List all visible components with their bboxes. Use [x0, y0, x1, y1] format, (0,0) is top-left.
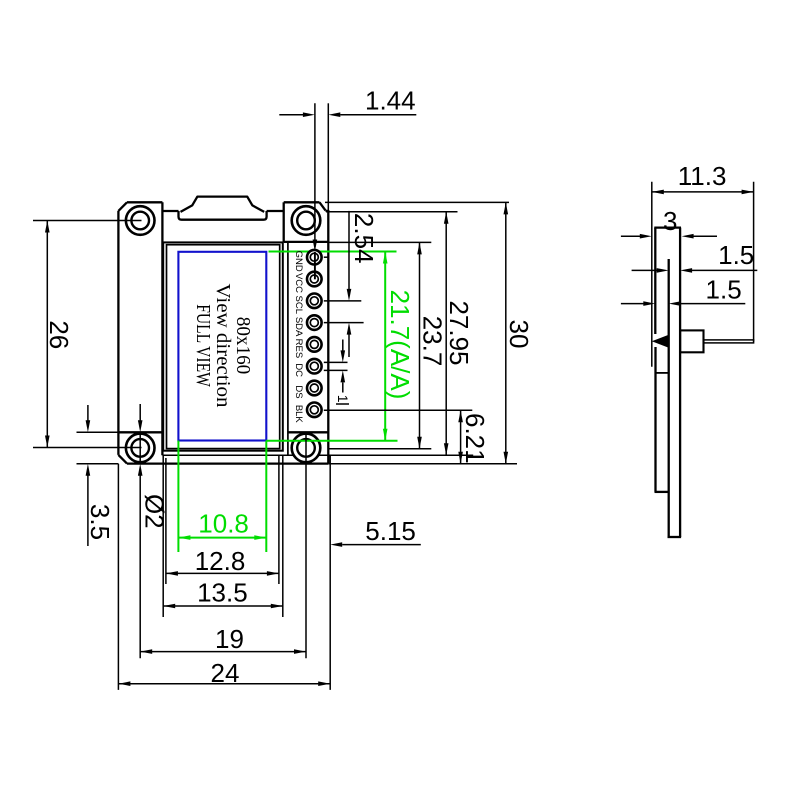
header pin BLK pad	[307, 403, 322, 418]
svg-text:10.8: 10.8	[198, 509, 249, 539]
svg-text:GND: GND	[293, 251, 304, 272]
display text 80x160 / View direction / FULL VIEW	[192, 284, 254, 408]
dim 1.44 ext line board-edge	[327, 103, 329, 210]
dim 3.5 dimension line upper	[87, 405, 89, 421]
dim 1.44 dimension line left	[279, 114, 303, 116]
PCB bottom edge	[127, 462, 328, 464]
dim 3 dimension line left	[621, 235, 640, 237]
dim 3.5 dimension line lower	[87, 476, 89, 547]
connector tab hat	[181, 197, 265, 212]
bottom-right ear top edge	[288, 431, 328, 433]
dim 13.5 dimension line	[163, 605, 283, 607]
mounting hole pad top-left	[126, 206, 155, 235]
svg-text:21.7(A/A): 21.7(A/A)	[385, 290, 415, 400]
top-left ear top edge	[127, 201, 162, 203]
dim 23.7 ext line top	[328, 241, 431, 243]
svg-text:3: 3	[663, 206, 677, 236]
svg-text:Ø2: Ø2	[139, 494, 169, 529]
dim 19 ext line right hole center	[305, 433, 307, 658]
PCB bottom-left corner chamfer	[118, 455, 127, 464]
svg-text:DC: DC	[293, 363, 304, 377]
bottom-left ear top edge	[118, 431, 162, 433]
hole center line top-left (26 ext)	[33, 220, 142, 222]
dim 2.54 dimension line upper	[348, 211, 350, 289]
side view glass front lower / FPC left edge	[654, 347, 656, 492]
dim 24 ext line right	[329, 455, 331, 690]
green ext line active-area top	[269, 251, 397, 253]
side view FPC bottom edge	[655, 491, 669, 493]
side view FPC top edge	[655, 372, 669, 374]
dim Ø2 dimension line lower (19 ext)	[139, 476, 141, 659]
side view PCB back face	[679, 228, 681, 537]
dim 3 dimension line right	[694, 235, 718, 237]
svg-text:12.8: 12.8	[195, 546, 246, 576]
PCB top edge right segment	[267, 210, 284, 212]
dim 23.7 dimension line	[419, 242, 421, 448]
svg-text:1.44: 1.44	[365, 85, 416, 115]
svg-text:23.7: 23.7	[417, 316, 447, 367]
top-right ear left edge	[283, 202, 285, 242]
dim 12.8 dimension line	[166, 572, 279, 574]
svg-text:6.21: 6.21	[460, 413, 490, 464]
svg-text:26: 26	[44, 320, 74, 349]
dim 27.95 dimension line	[445, 212, 447, 456]
svg-text:SDA: SDA	[293, 317, 304, 337]
pin column center line through GND VCC	[314, 252, 316, 279]
svg-text:FULL VIEW: FULL VIEW	[192, 304, 214, 387]
svg-text:5.15: 5.15	[365, 516, 416, 546]
PCB top edge left segment	[162, 210, 178, 212]
green ext line active-area left	[177, 441, 179, 553]
mounting hole pad top-right	[292, 206, 321, 235]
dim 23.7 ext line bottom	[328, 448, 431, 450]
dim 2.54 ext line SCL	[324, 300, 362, 302]
header pin RES pad	[307, 337, 322, 352]
dim 27.95 ext line top	[326, 211, 458, 213]
dim 11.3 ext line right	[753, 182, 755, 342]
dim 6.21 ext line BLK pin	[324, 409, 473, 411]
header pin VCC pad	[307, 272, 322, 287]
PCB top-left corner chamfer	[118, 202, 127, 211]
dim 13.5 ext line right	[282, 455, 284, 617]
display glass inner outline	[167, 245, 280, 449]
svg-text:View direction: View direction	[212, 284, 234, 408]
top-right corner segment	[326, 210, 329, 212]
side view header body	[680, 330, 703, 352]
dim 30 ext line top	[325, 201, 509, 203]
dim 24 ext line left	[117, 464, 119, 690]
dim 10.8 dimension line	[178, 537, 266, 539]
svg-text:30: 30	[504, 320, 534, 349]
display active area (blue)	[178, 252, 266, 441]
svg-text:27.95: 27.95	[444, 300, 474, 365]
dim 19 dimension line	[140, 651, 306, 653]
dim 1.5 lower dimension line right	[681, 303, 746, 305]
dim 13.5 ext line left	[162, 455, 164, 617]
dim 1.5 lower dimension line left	[621, 303, 644, 305]
svg-text:13.5: 13.5	[197, 578, 248, 608]
dim 3.5 ext line ear-top tangent	[77, 431, 138, 433]
svg-text:19: 19	[215, 624, 244, 654]
dim 26 dimension line	[46, 221, 48, 448]
header pin GND pad	[307, 250, 322, 265]
dim 1 dimension line upper	[342, 340, 344, 351]
dim 2.54 dimension line lower	[348, 335, 350, 358]
top-right ear top edge	[284, 201, 320, 203]
side view stack top cap	[654, 226, 681, 228]
hole center line bottom-left (26 ext)	[33, 447, 142, 449]
side view solder fillet	[652, 335, 669, 348]
header pin SCL pad	[307, 294, 322, 309]
green ext line active-area bottom	[266, 440, 397, 442]
dim 11.3 dimension line	[652, 191, 754, 193]
dim 1 ext line DC lower	[324, 369, 348, 371]
mounting hole pad bottom-left	[126, 434, 155, 463]
dim 1.44 pin-column arrow	[314, 240, 316, 248]
side view glass front face	[654, 228, 656, 334]
display area right boundary line	[287, 242, 289, 455]
svg-text:1.5: 1.5	[706, 275, 742, 305]
dim 12.8 ext line left	[165, 458, 167, 584]
dim 3.5 ext line board bottom left	[77, 463, 119, 465]
svg-text:VCC: VCC	[293, 273, 304, 293]
dim 1 dimension line lower	[342, 383, 344, 393]
header pin DS pad	[307, 381, 322, 396]
dim 30 ext line bottom / board bottom extension	[328, 463, 517, 465]
svg-text:11.3: 11.3	[678, 161, 727, 191]
svg-text:80x160: 80x160	[232, 317, 254, 375]
green ext line active-area right	[265, 441, 267, 553]
connector tab base	[179, 211, 267, 220]
dim 24 dimension line	[118, 683, 330, 685]
dim 30 dimension line	[505, 202, 507, 463]
GND pin stub line	[324, 256, 329, 258]
side view glass/PCB divider	[668, 259, 670, 537]
dim 1 ext line DC upper	[324, 361, 348, 363]
top-right ear chamfer	[320, 202, 326, 210]
top-right ear bottom edge	[284, 241, 329, 243]
svg-text:1.5: 1.5	[718, 240, 754, 270]
svg-text:BLK: BLK	[293, 405, 304, 424]
dim 11.3 ext line left	[651, 182, 653, 367]
dim 1.5 upper dimension line left	[632, 269, 657, 271]
lower step edge / 27.95 extension line	[162, 454, 473, 456]
dim 21.7(A/A) dimension line	[384, 252, 386, 441]
svg-text:1: 1	[335, 395, 351, 403]
side view header pin	[704, 340, 754, 343]
svg-text:SCL: SCL	[293, 296, 304, 314]
PCB board left edge	[117, 211, 119, 455]
hole center line vertical bottom-left	[139, 432, 141, 463]
dim 2.54 ext line SDA	[324, 322, 364, 324]
header pin DC pad	[307, 359, 322, 374]
dim 6.21 dimension line	[460, 410, 462, 464]
svg-text:2.54: 2.54	[349, 213, 379, 264]
svg-text:RES: RES	[293, 339, 304, 359]
dim 1.44 ext line pin-column	[314, 103, 316, 239]
display glass outer outline	[163, 242, 283, 450]
svg-text:24: 24	[211, 658, 240, 688]
side view PCB bottom cap	[668, 536, 682, 538]
dim Ø2 dimension line upper	[139, 404, 141, 421]
dim 1.5 upper dimension line right	[692, 269, 757, 271]
dim 1.44 dimension line right	[340, 114, 416, 116]
left strip right edge	[161, 202, 163, 455]
PCB right edge	[327, 210, 329, 464]
svg-text:DS: DS	[293, 385, 304, 398]
dim 12.8 ext line right	[278, 455, 280, 584]
dim 5.15 leader line	[342, 544, 421, 546]
svg-text:3.5: 3.5	[85, 504, 115, 540]
header pin SDA pad	[307, 315, 322, 330]
mounting hole pad bottom-right	[292, 434, 321, 463]
